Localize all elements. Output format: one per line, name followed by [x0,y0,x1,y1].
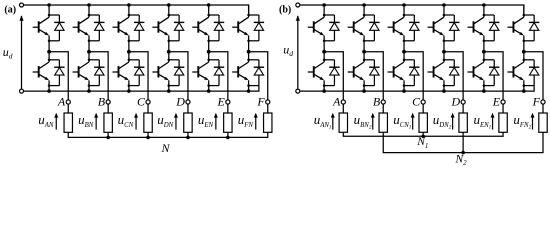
svg-text:E: E [217,95,226,109]
svg-text:uDN2: uDN2 [433,112,452,130]
svg-text:D: D [175,95,185,109]
svg-text:uFN2: uFN2 [513,112,531,130]
svg-text:(a): (a) [4,5,16,16]
svg-text:F: F [256,95,265,109]
svg-text:uEN: uEN [198,112,214,129]
svg-text:C: C [412,95,421,109]
svg-text:E: E [492,95,501,109]
svg-text:A: A [332,95,341,109]
svg-text:N: N [161,141,171,155]
svg-text:B: B [98,95,106,109]
svg-text:A: A [57,95,66,109]
svg-text:uCN: uCN [118,112,134,129]
svg-text:N1: N1 [416,136,428,150]
svg-text:uBN2: uBN2 [354,112,372,130]
svg-text:B: B [373,95,381,109]
svg-text:uBN: uBN [78,112,94,129]
svg-text:uCN1: uCN1 [393,112,412,130]
svg-text:ud: ud [3,45,13,60]
svg-text:uDN: uDN [157,112,173,129]
svg-text:uEN1: uEN1 [473,112,491,130]
svg-text:uAN1: uAN1 [314,112,332,130]
svg-text:D: D [450,95,460,109]
svg-text:(b): (b) [279,5,291,16]
svg-text:F: F [532,95,541,109]
svg-text:C: C [137,95,146,109]
svg-text:uAN: uAN [38,112,54,129]
svg-text:uFN: uFN [238,112,254,129]
svg-text:ud: ud [283,43,293,58]
svg-text:N2: N2 [455,153,468,167]
